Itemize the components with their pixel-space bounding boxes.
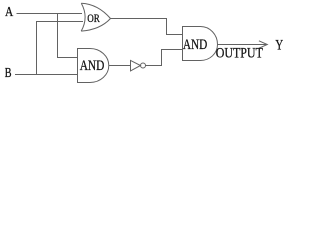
svg-text:OR: OR — [87, 13, 100, 25]
svg-text:AND: AND — [80, 58, 105, 74]
svg-text:B: B — [5, 65, 12, 80]
svg-text:Y: Y — [275, 38, 283, 54]
svg-text:OUTPUT: OUTPUT — [216, 46, 263, 62]
svg-text:A: A — [5, 4, 13, 19]
svg-text:AND: AND — [183, 37, 207, 53]
